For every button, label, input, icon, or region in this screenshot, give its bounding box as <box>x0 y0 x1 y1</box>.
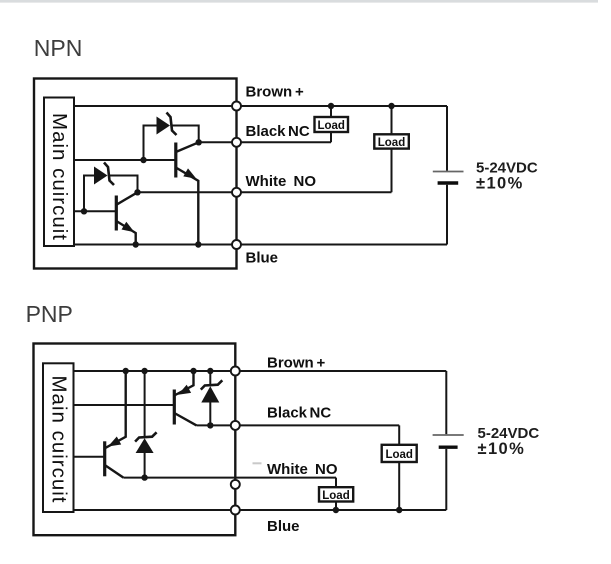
wire Q1 base (NPN) <box>74 159 176 161</box>
svg-text:NC: NC <box>310 405 332 422</box>
svg-text:Brown: Brown <box>246 84 293 101</box>
svg-text:NO: NO <box>315 461 338 478</box>
zener diode D4 (PNP lower) <box>135 371 157 478</box>
top separator line <box>0 0 598 3</box>
load box RL1 (NPN black NC) <box>315 117 349 132</box>
junction dot D4 anode / white wire <box>141 474 147 480</box>
stray mark <box>253 462 262 464</box>
wire brown + (NPN) <box>74 105 447 107</box>
terminal brown (NPN) <box>232 102 241 111</box>
wire battery right vertical (PNP) <box>445 371 447 510</box>
junction dot load3 / blue wire <box>396 507 402 513</box>
svg-text:Load: Load <box>317 120 344 132</box>
svg-text:Black: Black <box>267 405 308 422</box>
battery BT2 positive plate (PNP) <box>433 434 464 436</box>
svg-text:Blue: Blue <box>267 518 300 535</box>
battery BT1 negative plate (NPN) <box>438 181 459 184</box>
svg-text:±10%: ±10% <box>478 440 526 458</box>
junction dot Q1 base / D1 anode <box>140 157 146 163</box>
junction dot Q4 emitter / brown wire <box>123 368 129 374</box>
NPN sensor outer box <box>34 79 237 269</box>
svg-text:NC: NC <box>288 123 310 140</box>
battery BT1 positive plate (NPN) <box>433 171 464 173</box>
wire black NC (PNP) <box>197 424 400 426</box>
junction dot Q3 emitter / brown wire <box>190 368 196 374</box>
svg-text:+: + <box>317 355 326 372</box>
svg-text:PNP: PNP <box>26 301 73 327</box>
junction dot load2 / brown wire <box>388 103 394 109</box>
wire Q3 base (PNP) <box>74 404 175 406</box>
wire blue 0V (PNP) <box>74 509 447 511</box>
load box RL4 (PNP white NO) <box>319 487 353 501</box>
wire load3 vertical (PNP black) <box>398 425 400 510</box>
wire load2 vertical (NPN) <box>391 106 393 192</box>
svg-text:Brown: Brown <box>267 355 314 372</box>
wire Q2 base (NPN) <box>74 210 116 212</box>
svg-text:White: White <box>246 173 287 190</box>
junction dot D3 anode / black wire <box>207 422 213 428</box>
zener diode D3 (PNP upper) <box>201 371 223 425</box>
junction dot Q2 emitter / blue wire <box>133 241 139 247</box>
svg-text:Load: Load <box>385 449 412 461</box>
svg-text:White: White <box>267 461 308 478</box>
svg-text:Blue: Blue <box>246 250 279 267</box>
terminal white (PNP) <box>231 480 240 489</box>
junction dot D3 cathode / brown wire <box>207 368 213 374</box>
wire battery right vertical (NPN) <box>446 106 448 245</box>
junction dot Q1 collector / black wire <box>196 139 202 145</box>
svg-text:Black: Black <box>246 123 287 140</box>
load box RL2 (NPN white NO) <box>374 134 409 148</box>
svg-text:Main cuircuit: Main cuircuit <box>48 113 71 240</box>
terminal brown (PNP) <box>231 367 240 376</box>
wire load1 vertical (NPN) <box>330 106 332 142</box>
battery BT2 negative plate (PNP) <box>439 446 458 449</box>
terminal black (PNP) <box>231 421 240 430</box>
junction dot Q2 base / D2 anode <box>81 208 87 214</box>
main circuit block U1 (Main cuircuit) <box>44 98 74 247</box>
svg-text:NPN: NPN <box>34 35 83 61</box>
terminal blue (NPN) <box>232 240 241 249</box>
terminal blue (PNP) <box>231 506 240 515</box>
svg-text:NO: NO <box>294 173 317 190</box>
transistor Q1 (NPN upper) <box>176 142 199 244</box>
svg-text:Load: Load <box>378 137 405 149</box>
junction dot load4 / blue wire <box>333 507 339 513</box>
svg-text:±10%: ±10% <box>476 175 524 193</box>
transistor Q2 (NPN lower) <box>116 192 137 244</box>
PNP sensor outer box <box>34 344 236 536</box>
zener diode D2 (NPN lower) <box>84 163 138 212</box>
svg-text:Main cuircuit: Main cuircuit <box>47 376 70 503</box>
terminal black (NPN) <box>232 138 241 147</box>
junction dot D4 cathode / brown wire <box>141 368 147 374</box>
svg-text:Load: Load <box>322 490 349 502</box>
load box RL3 (PNP black NC) <box>382 445 417 462</box>
zener diode D1 (NPN upper) <box>144 113 199 161</box>
svg-text:+: + <box>295 84 304 101</box>
terminal white (NPN) <box>232 188 241 197</box>
wire black NC (NPN) <box>199 141 331 143</box>
wire white NO (PNP) <box>123 477 336 479</box>
transistor Q4 (PNP lower) <box>105 371 126 478</box>
wire white NO (NPN) <box>138 191 392 193</box>
junction dot Q2 collector / white wire <box>134 189 140 195</box>
junction dot load1 / brown wire <box>328 103 334 109</box>
wire Q4 base (PNP) <box>74 456 105 458</box>
transistor Q3 (PNP upper) <box>174 371 196 425</box>
wire brown + (PNP) <box>74 370 447 372</box>
wire load4 vertical (PNP white) <box>335 478 337 510</box>
junction dot Q1 emitter / blue wire <box>195 241 201 247</box>
wire blue 0V (NPN) <box>74 244 447 246</box>
main circuit block U2 (Main cuircuit) <box>43 363 74 512</box>
